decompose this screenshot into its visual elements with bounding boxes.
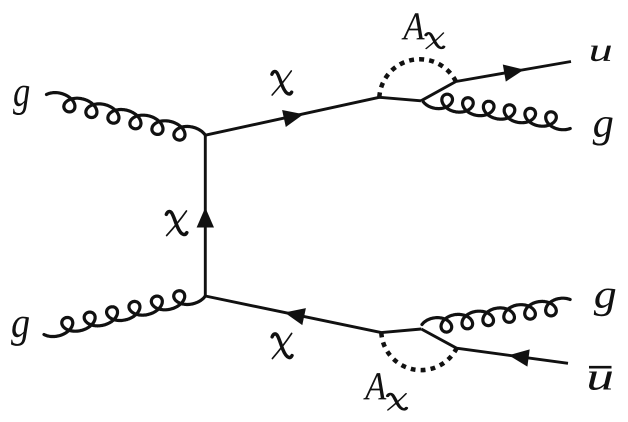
label chi (vertical chi propagator) xyxy=(166,211,186,236)
arrow on u quark line xyxy=(503,65,524,82)
label g (incoming gluon, top left) xyxy=(13,86,29,115)
label u-bar (anti-u quark) xyxy=(589,372,612,390)
gluon g (outgoing, top right) xyxy=(423,94,570,130)
gluon g (incoming, bottom left) xyxy=(44,291,205,337)
chi propagator (vertical, t-channel) xyxy=(204,135,207,296)
label g (incoming gluon, bottom left) xyxy=(11,317,29,346)
anti-u quark line (bottom right) xyxy=(421,329,568,363)
label chi (top chi line) xyxy=(272,71,292,95)
label g (outgoing gluon, top right) xyxy=(593,117,613,146)
arrow on vertical chi propagator (up) xyxy=(197,208,214,228)
arrow on bottom chi line (pointing to vertex) xyxy=(285,308,306,325)
arrow on anti-u quark line (pointing left) xyxy=(509,349,530,366)
label A (top A_chi) xyxy=(402,13,425,39)
label chi subscript (top A_chi) xyxy=(426,33,444,49)
label g (outgoing gluon, bottom right) xyxy=(594,288,616,316)
label chi subscript (bottom A_chi) xyxy=(388,394,407,410)
gluon g (incoming, top left) xyxy=(47,93,206,141)
arrow on top chi line xyxy=(282,110,303,127)
label u (u quark) xyxy=(591,46,611,62)
chi line (top, vertex to arc anchor) xyxy=(205,97,421,135)
overline of u-bar xyxy=(589,366,612,369)
A_chi mediator dashed arc (bottom) xyxy=(381,333,456,371)
A_chi mediator dashed arc (top) xyxy=(379,59,456,97)
gluon g (outgoing, bottom right) xyxy=(422,298,570,332)
chi line (bottom, vertex to arc anchor) xyxy=(205,296,421,333)
label A (bottom A_chi) xyxy=(363,373,386,399)
label chi (bottom chi line) xyxy=(272,333,292,358)
u quark line (top right) xyxy=(421,62,571,101)
